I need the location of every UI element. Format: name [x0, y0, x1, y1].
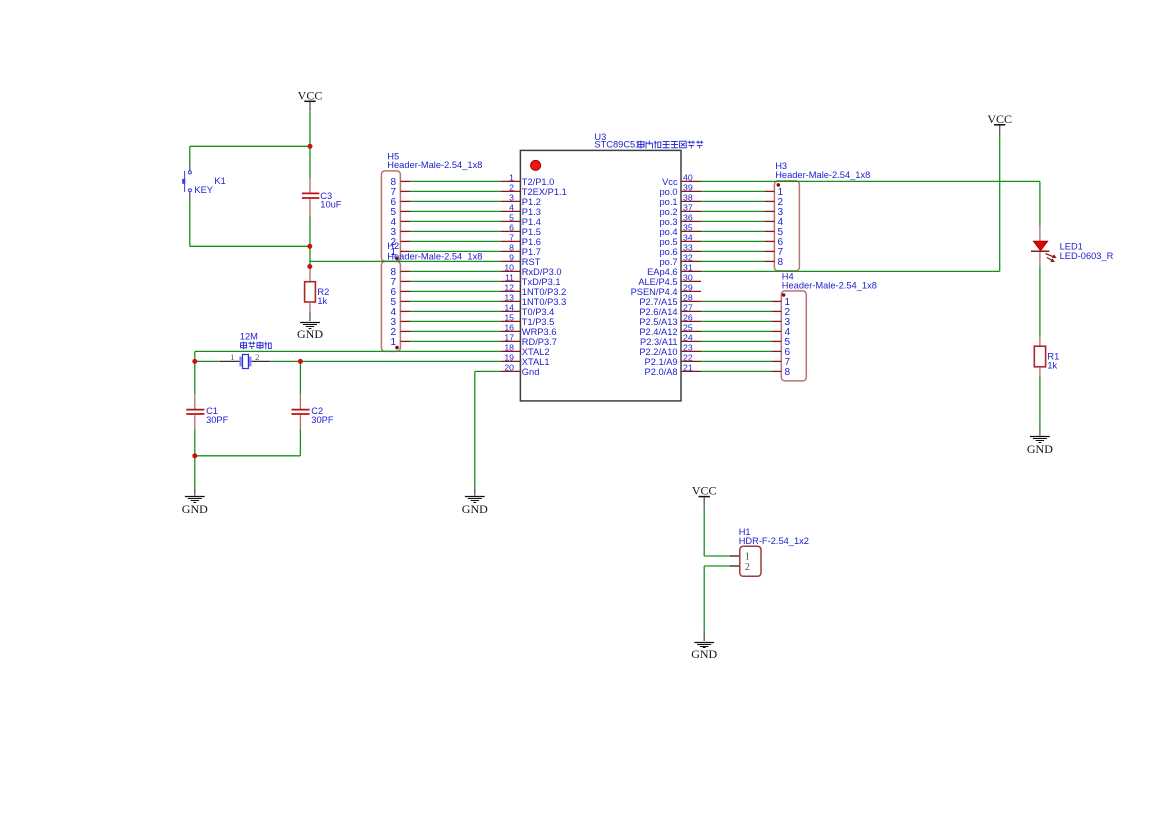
- svg-text:19: 19: [504, 353, 514, 363]
- wire H5 to U3: [410, 200, 500, 202]
- wire VCC down: [309, 111, 311, 146]
- svg-text:T0/P3.4: T0/P3.4: [522, 307, 555, 317]
- junction R2 top: [307, 264, 312, 269]
- svg-text:ALE/P4.5: ALE/P4.5: [638, 277, 677, 287]
- U3 pin 33 po.6: [659, 243, 701, 257]
- svg-text:3: 3: [509, 193, 514, 203]
- resistor R2 1k: [305, 267, 330, 312]
- svg-text:28: 28: [683, 293, 693, 303]
- svg-text:Header-Male-2.54_1x8: Header-Male-2.54_1x8: [782, 281, 877, 291]
- wire U3 to H4: [701, 330, 771, 332]
- svg-text:6: 6: [509, 223, 514, 233]
- U3 pin 17 RD/P3.7: [500, 333, 557, 347]
- wire H2 to U3: [410, 310, 500, 312]
- wire U3 to H3: [701, 260, 764, 262]
- svg-text:P1.3: P1.3: [522, 207, 541, 217]
- svg-text:VCC: VCC: [987, 112, 1012, 126]
- U3 pin 28 P2.7/A15: [639, 293, 701, 307]
- wire H5 to U3: [410, 190, 500, 192]
- svg-text:P1.6: P1.6: [522, 237, 541, 247]
- svg-text:29: 29: [683, 283, 693, 293]
- svg-text:XTAL1: XTAL1: [522, 357, 550, 367]
- svg-text:9: 9: [509, 253, 514, 263]
- U3 pin 21 P2.0/A8: [645, 363, 701, 377]
- wire: [195, 360, 220, 362]
- svg-text:P1.5: P1.5: [522, 227, 541, 237]
- svg-text:Header-Male-2.54_1x8: Header-Male-2.54_1x8: [775, 170, 870, 180]
- svg-text:RD/P3.7: RD/P3.7: [522, 337, 557, 347]
- capacitor C2 30PF: [292, 394, 334, 429]
- svg-text:15: 15: [504, 313, 514, 323]
- U3 pin 22 P2.1/A9: [645, 353, 701, 367]
- U3 pin 5 P1.4: [500, 213, 541, 227]
- U3 pin 15 T1/P3.5: [500, 313, 554, 327]
- wire H1 pin2 to ground: [703, 566, 705, 631]
- svg-text:30: 30: [683, 273, 693, 283]
- svg-text:1NT0/P3.2: 1NT0/P3.2: [522, 287, 566, 297]
- svg-text:37: 37: [683, 203, 693, 213]
- header H4 Header-Male-2.54_1x8: [771, 271, 876, 381]
- svg-text:12M: 12M: [240, 332, 258, 342]
- U3 pin 1 T2/P1.0: [500, 173, 554, 187]
- svg-text:13: 13: [504, 293, 514, 303]
- U3 pin 39 po.0: [659, 183, 701, 197]
- wire H5 to U3: [410, 220, 500, 222]
- svg-text:36: 36: [683, 213, 693, 223]
- wire: [309, 146, 311, 178]
- svg-text:GND: GND: [182, 502, 208, 516]
- wire: [270, 360, 300, 362]
- U3 pin 40 Vcc: [662, 173, 701, 187]
- wire: [299, 361, 301, 394]
- wire U3 to H4: [701, 310, 771, 312]
- U3 pin 29 PSEN/P4.4: [631, 283, 701, 297]
- wire VCC column: [999, 135, 1001, 272]
- svg-text:Vcc: Vcc: [662, 177, 678, 187]
- U3 pin 31 EAp4.6: [647, 263, 701, 277]
- wire: [704, 565, 730, 567]
- svg-text:po.2: po.2: [659, 207, 677, 217]
- svg-text:P2.3/A11: P2.3/A11: [640, 337, 678, 347]
- svg-text:T2EX/P1.1: T2EX/P1.1: [522, 187, 567, 197]
- svg-text:RxD/P3.0: RxD/P3.0: [522, 267, 562, 277]
- header H5 Header-Male-2.54_1x8: [381, 152, 482, 262]
- svg-text:EAp4.6: EAp4.6: [647, 267, 678, 277]
- wire node to R2: [309, 246, 311, 266]
- svg-text:2: 2: [255, 352, 259, 362]
- svg-text:7: 7: [509, 233, 514, 243]
- U3 pin 36 po.3: [659, 213, 701, 227]
- U3 pin 26 P2.5/A13: [639, 313, 701, 327]
- wire: [194, 351, 196, 361]
- U3 pin 30 ALE/P4.5: [638, 273, 701, 287]
- svg-text:H2: H2: [387, 241, 399, 251]
- svg-text:33: 33: [683, 243, 693, 253]
- crystal X1 body: [220, 352, 270, 369]
- U3 pin 14 T0/P3.4: [500, 303, 554, 317]
- ground (below R2): [297, 311, 323, 341]
- junction K1/C3/R2 node: [307, 244, 312, 249]
- wire LED to R1: [1039, 267, 1041, 337]
- svg-text:po.4: po.4: [659, 227, 677, 237]
- svg-text:PSEN/P4.4: PSEN/P4.4: [631, 287, 678, 297]
- wire: [194, 429, 196, 456]
- wire H2 to U3: [410, 270, 500, 272]
- U3 pin 10 RxD/P3.0: [500, 263, 561, 277]
- wire U3 to H4: [701, 350, 771, 352]
- header H2 Header-Male-2.54_1x8: [381, 241, 482, 351]
- power flag VCC (left): [298, 88, 323, 111]
- U3 pin 9 RST: [500, 253, 540, 267]
- wire U3 to H4: [701, 370, 771, 372]
- svg-text:VCC: VCC: [298, 88, 323, 102]
- wire U3 to H3: [701, 250, 764, 252]
- svg-text:P2.1/A9: P2.1/A9: [645, 357, 678, 367]
- svg-text:po.1: po.1: [659, 197, 677, 207]
- power flag VCC (right): [987, 112, 1012, 135]
- wire U3 to H4: [701, 320, 771, 322]
- svg-text:21: 21: [683, 363, 693, 373]
- svg-text:P1.4: P1.4: [522, 217, 541, 227]
- svg-text:14: 14: [504, 303, 514, 313]
- ground (below H1): [691, 631, 717, 661]
- wire H2 to U3: [410, 330, 500, 332]
- svg-text:30PF: 30PF: [311, 415, 334, 425]
- resistor R1 1k: [1034, 337, 1059, 376]
- svg-text:XTAL2: XTAL2: [522, 347, 550, 357]
- U3 pin 27 P2.6/A14: [639, 303, 701, 317]
- svg-text:35: 35: [683, 223, 693, 233]
- svg-text:GND: GND: [297, 327, 323, 341]
- U3 pin 18 XTAL2: [500, 343, 549, 357]
- wire H5 to U3: [410, 250, 500, 252]
- svg-text:2: 2: [509, 183, 514, 193]
- wire K1 bottom left: [189, 202, 191, 247]
- svg-text:24: 24: [683, 333, 693, 343]
- U3 pin 4 P1.3: [500, 203, 541, 217]
- svg-text:Header-Male-2.54_1x8: Header-Male-2.54_1x8: [387, 160, 482, 170]
- wire down to ground: [474, 371, 476, 486]
- U3 pin 20 Gnd: [500, 363, 539, 377]
- svg-text:8: 8: [785, 367, 791, 378]
- U3 pin 16 WRP3.6: [500, 323, 556, 337]
- wire U3 to H3: [701, 190, 764, 192]
- wire H2 to U3: [410, 290, 500, 292]
- wire U3 to H3: [701, 200, 764, 202]
- wire: [704, 555, 730, 557]
- U3 pin 35 po.4: [659, 223, 701, 237]
- svg-text:40: 40: [683, 173, 693, 183]
- svg-text:10uF: 10uF: [320, 200, 342, 210]
- svg-text:LED1: LED1: [1060, 242, 1083, 252]
- wire VCC to H1 pin1: [703, 506, 705, 556]
- svg-text:22: 22: [683, 353, 693, 363]
- svg-text:P2.2/A10: P2.2/A10: [639, 347, 677, 357]
- svg-text:12: 12: [504, 283, 514, 293]
- power flag VCC (H1): [692, 484, 717, 507]
- U3 pin 6 P1.5: [500, 223, 541, 237]
- svg-text:20: 20: [504, 363, 514, 373]
- U3 pin 8 P1.7: [500, 243, 541, 257]
- svg-text:Header-Male-2.54_1x8: Header-Male-2.54_1x8: [387, 252, 482, 262]
- svg-text:GND: GND: [691, 647, 717, 661]
- svg-text:8: 8: [509, 243, 514, 253]
- svg-text:LED-0603_R: LED-0603_R: [1060, 251, 1114, 261]
- svg-text:po.0: po.0: [659, 187, 677, 197]
- ground (below U3): [462, 486, 488, 516]
- svg-text:38: 38: [683, 193, 693, 203]
- wire: [194, 361, 196, 394]
- wire U3 to H3: [701, 220, 764, 222]
- svg-text:RST: RST: [522, 257, 541, 267]
- svg-text:po.5: po.5: [659, 237, 677, 247]
- header H1 HDR-F-2.54_1x2: [730, 527, 809, 576]
- svg-text:23: 23: [683, 343, 693, 353]
- svg-text:HDR-F-2.54_1x2: HDR-F-2.54_1x2: [739, 536, 809, 546]
- U3 pin 3 P1.2: [500, 193, 541, 207]
- LED LED1 LED-0603_R: [1031, 226, 1114, 267]
- U3 pin 37 po.2: [659, 203, 701, 217]
- wire C3 to node: [309, 216, 311, 247]
- svg-text:17: 17: [504, 333, 514, 343]
- U3 pin 25 P2.4/A12: [639, 323, 701, 337]
- svg-text:1: 1: [509, 173, 514, 183]
- U3 pin 23 P2.2/A10: [639, 343, 701, 357]
- wire Gnd pin20: [475, 370, 501, 372]
- wire to ground: [194, 456, 196, 486]
- header H3 Header-Male-2.54_1x8: [764, 161, 870, 271]
- svg-text:16: 16: [504, 323, 514, 333]
- svg-text:1: 1: [390, 337, 396, 348]
- svg-text:11: 11: [505, 273, 514, 283]
- svg-text:GND: GND: [462, 502, 488, 516]
- wire H2 to U3: [410, 320, 500, 322]
- svg-text:4: 4: [509, 203, 514, 213]
- svg-text:1NT0/P3.3: 1NT0/P3.3: [522, 297, 566, 307]
- U3 pin 19 XTAL1: [500, 353, 549, 367]
- wire H2 to U3: [410, 300, 500, 302]
- svg-text:1: 1: [230, 352, 234, 362]
- svg-text:10: 10: [504, 263, 514, 273]
- svg-text:27: 27: [683, 303, 693, 313]
- U3 pin 13 1NT0/P3.3: [500, 293, 566, 307]
- capacitor C1 30PF: [186, 394, 228, 429]
- ground (below R1): [1027, 426, 1053, 456]
- capacitor C3 10uF: [302, 179, 342, 216]
- U3 pin 2 T2EX/P1.1: [500, 183, 566, 197]
- wire H5 to U3: [410, 230, 500, 232]
- svg-text:po.6: po.6: [659, 247, 677, 257]
- wire RST to U3 pin 9: [310, 260, 501, 262]
- wire: [299, 429, 301, 456]
- svg-text:30PF: 30PF: [206, 415, 229, 425]
- svg-text:P2.0/A8: P2.0/A8: [645, 367, 678, 377]
- U3 pin 34 po.5: [659, 233, 701, 247]
- junction crystal pin1 node: [192, 359, 197, 364]
- wire U3 to H4: [701, 360, 771, 362]
- svg-text:Gnd: Gnd: [522, 367, 540, 377]
- svg-text:GND: GND: [1027, 442, 1053, 456]
- svg-text:5: 5: [509, 213, 514, 223]
- wire R1 to ground: [1039, 376, 1041, 426]
- svg-text:25: 25: [683, 323, 693, 333]
- wire H5 to U3: [410, 240, 500, 242]
- svg-text:1k: 1k: [1047, 361, 1057, 371]
- svg-text:P2.4/A12: P2.4/A12: [639, 327, 677, 337]
- wire Vcc pin40 to LED column: [701, 180, 1040, 182]
- svg-text:TxD/P3.1: TxD/P3.1: [522, 277, 561, 287]
- wire XTAL2 to U3 pin 18: [195, 350, 501, 352]
- svg-text:34: 34: [683, 233, 693, 243]
- svg-text:P1.7: P1.7: [522, 247, 541, 257]
- wire H5 to U3: [410, 210, 500, 212]
- svg-text:39: 39: [683, 183, 693, 193]
- svg-text:K1: K1: [214, 176, 225, 186]
- svg-text:T2/P1.0: T2/P1.0: [522, 177, 555, 187]
- wire U3 to H4: [701, 340, 771, 342]
- U3 pin 24 P2.3/A11: [640, 333, 701, 347]
- svg-text:STC89C51: STC89C51: [594, 140, 640, 150]
- IC U3 STC89C51: [520, 132, 703, 401]
- U3 pin 7 P1.6: [500, 233, 541, 247]
- svg-text:P2.7/A15: P2.7/A15: [639, 297, 677, 307]
- ground (below C1): [182, 486, 208, 516]
- wire U3 to H4: [701, 300, 771, 302]
- svg-text:18: 18: [504, 343, 514, 353]
- svg-text:P1.2: P1.2: [522, 197, 541, 207]
- wire U3 to H3: [701, 210, 764, 212]
- U3 pin 38 po.1: [659, 193, 701, 207]
- svg-text:T1/P3.5: T1/P3.5: [522, 317, 555, 327]
- svg-text:P2.5/A13: P2.5/A13: [639, 317, 677, 327]
- U3 pin 11 TxD/P3.1: [500, 273, 560, 287]
- svg-text:po.7: po.7: [659, 257, 677, 267]
- junction crystal pin2 node: [298, 359, 303, 364]
- svg-text:WRP3.6: WRP3.6: [522, 327, 557, 337]
- svg-text:2: 2: [745, 562, 750, 573]
- wire C1-C2 bottom: [195, 455, 301, 457]
- svg-text:31: 31: [683, 263, 693, 273]
- junction VCC node: [308, 144, 313, 149]
- svg-text:KEY: KEY: [194, 185, 213, 195]
- svg-text:32: 32: [683, 253, 693, 263]
- junction C1/C2 ground node: [192, 453, 197, 458]
- wire EA pin31 to VCC column: [701, 270, 1000, 272]
- wire H2 to U3: [410, 280, 500, 282]
- wire U3 to H3: [701, 230, 764, 232]
- U3 pin 12 1NT0/P3.2: [500, 283, 566, 297]
- U3 pin 32 po.7: [659, 253, 701, 267]
- wire to K1 pin1: [189, 146, 191, 161]
- svg-text:26: 26: [683, 313, 693, 323]
- wire H2 to U3: [410, 340, 500, 342]
- svg-text:VCC: VCC: [692, 484, 717, 498]
- svg-text:P2.6/A14: P2.6/A14: [639, 307, 677, 317]
- wire down to LED: [1039, 181, 1041, 226]
- svg-text:po.3: po.3: [659, 217, 677, 227]
- wire H5 to U3: [410, 180, 500, 182]
- wire K1 top: [190, 145, 310, 147]
- svg-text:8: 8: [778, 257, 784, 268]
- wire K1 bottom: [190, 245, 310, 247]
- svg-text:1k: 1k: [317, 296, 327, 306]
- pushbutton K1 (KEY): [182, 162, 226, 202]
- wire U3 to H3: [701, 240, 764, 242]
- wire XTAL1 to U3 pin 19: [300, 360, 500, 362]
